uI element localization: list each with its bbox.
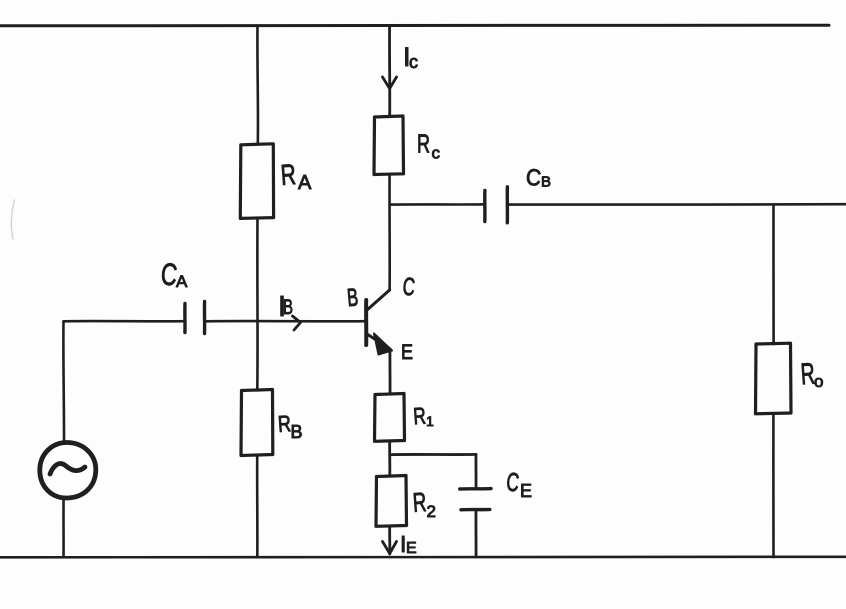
wire: C_A to transistor base <box>205 320 365 323</box>
transistor Q1 <box>346 273 416 364</box>
svg-text:2: 2 <box>427 502 436 521</box>
wire: collector node tap to C_B <box>390 203 484 206</box>
wire: jumper down to C_E top plate <box>475 455 478 489</box>
current label I_E <box>400 531 417 557</box>
resistor R_C <box>374 116 441 175</box>
capacitor C_B <box>485 163 551 222</box>
svg-text:B: B <box>541 174 551 191</box>
faint pencil smudge left edge <box>11 200 14 239</box>
svg-text:A: A <box>176 272 188 291</box>
wire: R_C bottom to collector <box>388 175 391 291</box>
wire: vertical from top rail down to R_A <box>256 26 259 143</box>
svg-text:E: E <box>406 540 417 557</box>
svg-text:R: R <box>412 487 428 518</box>
wire: R_D bottom to ground rail <box>772 414 775 557</box>
wire: AC source down to ground rail <box>62 499 65 558</box>
capacitor C_A <box>159 256 204 333</box>
resistor R_A <box>240 144 312 219</box>
wire: input node down to AC source <box>62 322 65 444</box>
wire: bottom ground rail <box>0 555 846 558</box>
svg-text:R: R <box>412 403 426 430</box>
svg-text:B: B <box>346 283 359 312</box>
svg-text:R: R <box>417 129 430 159</box>
svg-text:1: 1 <box>426 413 434 429</box>
capacitor C_E <box>460 466 532 509</box>
resistor R_D <box>756 343 824 414</box>
svg-text:E: E <box>401 341 413 364</box>
svg-text:c: c <box>432 144 441 163</box>
svg-text:C: C <box>525 163 543 190</box>
svg-text:C: C <box>401 273 416 302</box>
wire: output rail down to R_D <box>772 205 775 344</box>
wire: jumper from junction to C_E <box>390 453 476 456</box>
svg-text:A: A <box>298 172 312 194</box>
svg-text:c: c <box>409 52 418 72</box>
wire: R_1 bottom to R_2 top (junction node) <box>388 442 391 477</box>
svg-text:E: E <box>520 481 532 501</box>
svg-text:o: o <box>814 372 823 391</box>
source V1 (AC sine source) <box>40 442 96 498</box>
wire: input horizontal to C_A <box>64 320 185 323</box>
resistor R_1 <box>375 394 435 442</box>
svg-text:C: C <box>505 466 521 497</box>
svg-text:B: B <box>291 422 303 442</box>
wire: top rail down to R_C with I_C arrow <box>383 26 397 116</box>
wire: emitter down to R_1 <box>389 350 392 395</box>
wire: output rail from C_B to right edge <box>508 203 846 206</box>
wire: R_A bottom through base node to R_B <box>256 218 259 389</box>
svg-text:R: R <box>280 159 297 192</box>
wire: R_B bottom to ground rail <box>256 456 259 558</box>
wire: R_2 bottom to ground with I_E arrow <box>383 527 397 555</box>
current label I_B with arrow <box>278 291 301 330</box>
resistor R_B <box>241 390 303 456</box>
wire: C_E bottom plate to ground rail <box>475 510 478 557</box>
current label I_C <box>403 42 418 72</box>
resistor R_2 <box>376 476 436 527</box>
wire: top supply rail <box>0 24 829 28</box>
